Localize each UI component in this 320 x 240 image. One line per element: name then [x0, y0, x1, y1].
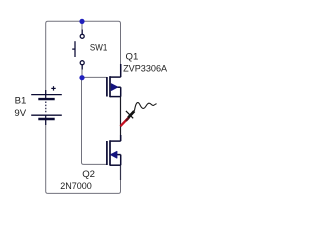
svg-text:SW1: SW1 — [90, 42, 107, 53]
svg-text:Q2: Q2 — [82, 169, 95, 180]
svg-text:9V: 9V — [14, 108, 26, 119]
svg-text:B1: B1 — [15, 95, 27, 106]
svg-text:2N7000: 2N7000 — [60, 181, 92, 192]
svg-text:ZVP3306A: ZVP3306A — [123, 63, 168, 74]
svg-text:Q1: Q1 — [126, 51, 139, 62]
